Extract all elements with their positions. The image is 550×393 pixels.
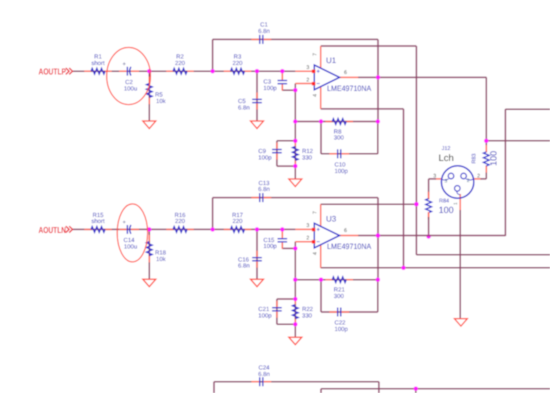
svg-text:6.8n: 6.8n — [258, 28, 270, 35]
svg-text:220: 220 — [232, 60, 243, 67]
svg-text:3: 3 — [445, 178, 448, 184]
svg-text:R8: R8 — [334, 128, 342, 135]
svg-text:100p: 100p — [263, 85, 277, 92]
svg-text:LME49710NA: LME49710NA — [327, 84, 372, 93]
svg-text:220: 220 — [175, 60, 186, 67]
svg-text:3: 3 — [306, 223, 309, 229]
svg-text:4: 4 — [313, 94, 319, 97]
svg-text:10k: 10k — [156, 98, 167, 105]
svg-text:4: 4 — [313, 252, 319, 255]
svg-text:C5: C5 — [238, 98, 246, 105]
svg-text:AOUTLN: AOUTLN — [39, 225, 67, 235]
svg-text:100p: 100p — [258, 154, 272, 161]
svg-text:3: 3 — [433, 174, 436, 180]
svg-text:6: 6 — [344, 70, 347, 76]
svg-text:short: short — [91, 60, 105, 67]
svg-text:C22: C22 — [335, 320, 347, 327]
svg-text:R3: R3 — [234, 54, 242, 61]
svg-text:10k: 10k — [156, 256, 167, 263]
svg-text:R84: R84 — [439, 198, 449, 204]
svg-text:6: 6 — [344, 228, 347, 234]
svg-text:100p: 100p — [263, 243, 277, 250]
svg-text:R5: R5 — [155, 92, 163, 99]
svg-text:C3: C3 — [263, 79, 271, 86]
svg-text:2: 2 — [306, 77, 309, 83]
svg-text:300: 300 — [334, 293, 345, 300]
svg-text:C16: C16 — [238, 256, 250, 263]
svg-text:100: 100 — [439, 205, 454, 215]
svg-text:Lch: Lch — [439, 153, 454, 164]
svg-text:6.8n: 6.8n — [258, 371, 270, 378]
svg-text:C24: C24 — [258, 365, 270, 372]
svg-text:330: 330 — [302, 154, 313, 161]
svg-text:C15: C15 — [263, 237, 275, 244]
svg-text:R1: R1 — [94, 54, 102, 61]
svg-text:J12: J12 — [442, 146, 451, 152]
svg-text:R15: R15 — [92, 212, 104, 219]
svg-text:C9: C9 — [258, 148, 266, 155]
svg-text:R16: R16 — [174, 212, 186, 219]
svg-text:short: short — [91, 218, 105, 225]
svg-text:R17: R17 — [232, 212, 244, 219]
svg-text:100u: 100u — [124, 244, 137, 251]
svg-text:R18: R18 — [155, 250, 167, 257]
svg-text:2: 2 — [477, 174, 480, 180]
svg-text:U1: U1 — [326, 56, 337, 65]
svg-text:C2: C2 — [125, 79, 133, 86]
svg-text:220: 220 — [175, 218, 186, 225]
svg-text:330: 330 — [302, 313, 313, 320]
svg-text:6.8n: 6.8n — [238, 105, 250, 112]
svg-text:3: 3 — [306, 65, 309, 71]
svg-text:R83: R83 — [472, 154, 478, 164]
svg-text:AOUTLP: AOUTLP — [39, 67, 67, 77]
svg-text:C10: C10 — [335, 162, 347, 169]
svg-text:2: 2 — [306, 235, 309, 241]
svg-text:6.8n: 6.8n — [258, 186, 270, 193]
svg-text:6.8n: 6.8n — [238, 263, 250, 270]
svg-text:300: 300 — [334, 135, 345, 142]
svg-text:1: 1 — [453, 202, 459, 205]
svg-text:100p: 100p — [258, 313, 272, 320]
svg-text:R21: R21 — [334, 287, 346, 294]
svg-text:R2: R2 — [176, 54, 184, 61]
svg-text:U3: U3 — [326, 214, 337, 223]
svg-text:C13: C13 — [258, 180, 270, 187]
svg-text:100p: 100p — [335, 168, 349, 175]
svg-text:C1: C1 — [260, 22, 268, 29]
svg-text:7: 7 — [313, 53, 319, 56]
svg-text:C14: C14 — [123, 237, 135, 244]
svg-text:220: 220 — [232, 218, 243, 225]
svg-text:100u: 100u — [124, 85, 137, 92]
svg-text:100: 100 — [488, 151, 498, 166]
svg-text:R22: R22 — [302, 306, 314, 313]
svg-text:100p: 100p — [335, 326, 349, 333]
svg-text:R12: R12 — [302, 148, 314, 155]
svg-text:LME49710NA: LME49710NA — [327, 242, 372, 251]
svg-text:7: 7 — [313, 211, 319, 214]
svg-text:2: 2 — [467, 178, 470, 184]
svg-text:C21: C21 — [258, 306, 270, 313]
